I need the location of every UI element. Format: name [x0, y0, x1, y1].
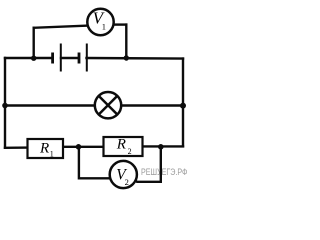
- wire right outer vertical: [182, 59, 184, 147]
- battery cell 1 short plate: [51, 53, 54, 64]
- wire V2 left branch: [79, 147, 111, 178]
- battery cell 2 short plate: [78, 53, 81, 64]
- node junction battery-right of V1 branch: [124, 55, 129, 60]
- wire top branch horizontal to V1: [34, 26, 88, 28]
- wire V1 right vertical: [125, 25, 127, 58]
- wire left outer vertical: [4, 58, 6, 148]
- node junction V2 right: [158, 144, 164, 150]
- wire V2 right branch: [135, 147, 161, 182]
- node junction battery-left of V1 branch: [31, 56, 36, 61]
- node junction V2 left: [76, 144, 82, 150]
- svg-text:1: 1: [102, 22, 106, 32]
- battery cell 1 long plate: [60, 44, 62, 72]
- wire battery row right segment: [87, 57, 184, 60]
- wire top branch left vertical: [33, 28, 35, 58]
- voltmeter V1: [87, 9, 113, 36]
- svg-text:2: 2: [128, 147, 132, 156]
- resistor R1: [28, 139, 64, 159]
- svg-text:R: R: [39, 140, 49, 156]
- wire R1 to R2 segment: [63, 146, 104, 148]
- svg-text:1: 1: [50, 150, 54, 159]
- wire bottom row left segment: [5, 146, 29, 149]
- wire R2 to right segment: [143, 145, 184, 147]
- svg-text:R: R: [116, 136, 126, 152]
- lamp: [95, 92, 121, 118]
- resistor R2: [104, 136, 143, 156]
- svg-text:РЕШУЕГЭ.РФ: РЕШУЕГЭ.РФ: [141, 167, 188, 178]
- wire battery row middle segment: [61, 57, 79, 59]
- wire lamp row left segment: [5, 104, 95, 106]
- wire V1 right stub: [114, 23, 126, 25]
- wire lamp row right segment: [122, 104, 184, 106]
- svg-text:2: 2: [125, 177, 129, 187]
- voltmeter V2: [110, 161, 137, 188]
- battery cell 2 long plate: [86, 44, 88, 72]
- node junction lamp row left: [2, 103, 8, 109]
- wire battery row left segment: [5, 57, 52, 59]
- node junction lamp row right: [180, 103, 186, 109]
